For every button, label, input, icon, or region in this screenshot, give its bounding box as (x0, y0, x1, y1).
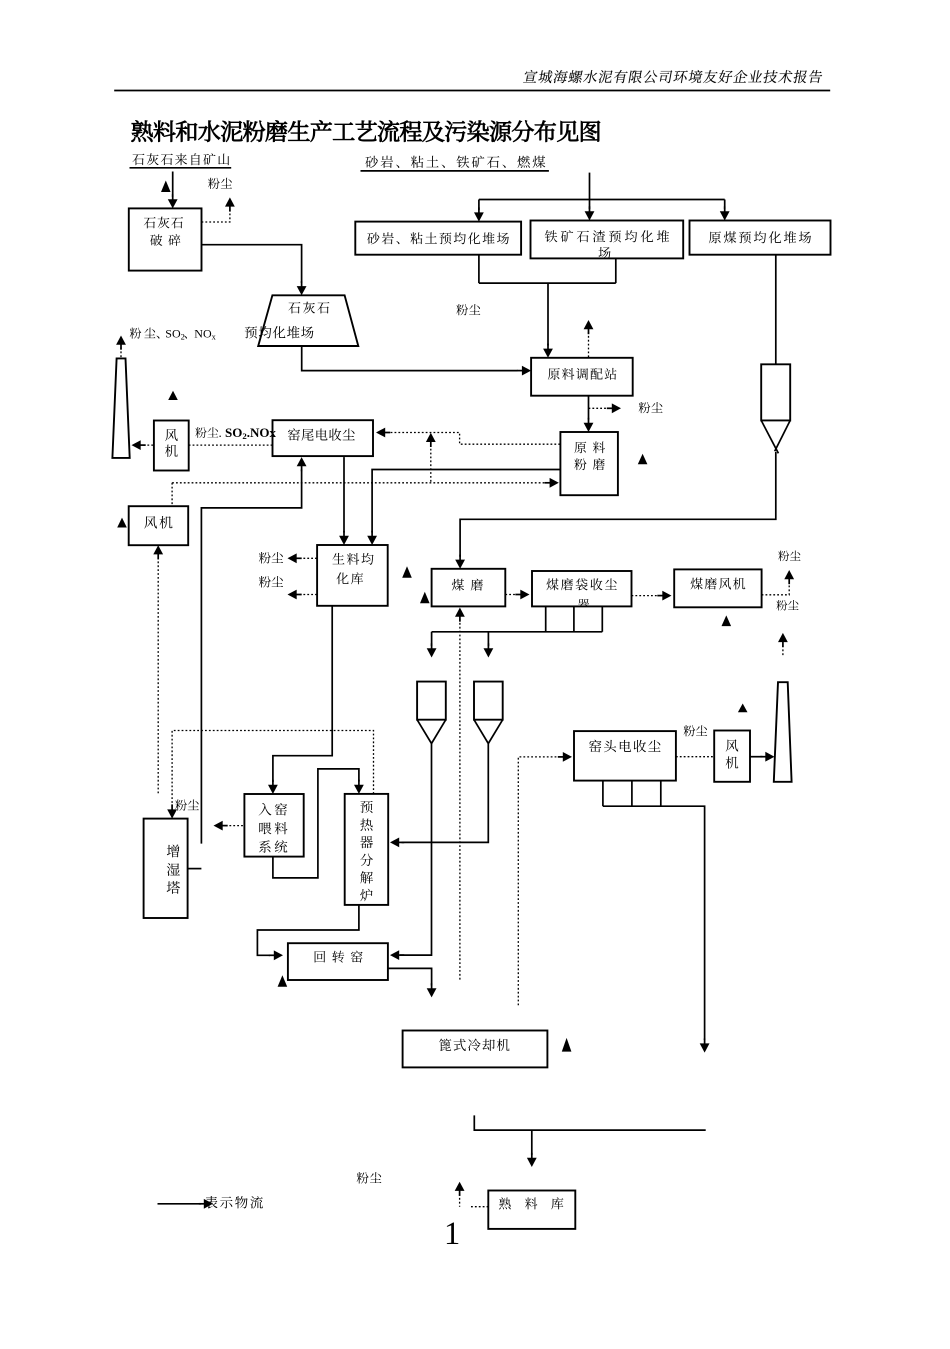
wire mixing to raw mill (588, 396, 590, 420)
pollution-source marker source fan2 (117, 518, 127, 528)
wire wire mine to crusher (172, 172, 174, 198)
label box text 场 clipped (599, 247, 611, 259)
arrowhead chimney1 dust head (116, 336, 126, 345)
label tower 塔 (167, 881, 180, 894)
arrowhead into bag filter (520, 590, 529, 600)
arrowhead into chimney2 (765, 752, 774, 762)
arrowhead into mixing station (522, 366, 531, 376)
arrowhead into chimney1 (132, 440, 141, 450)
wire dust riser (430, 445, 432, 483)
wire distribution bar (479, 199, 725, 201)
label feed 系统 (259, 840, 287, 853)
wire clinker dust v (459, 1194, 461, 1207)
pollution-source marker source kiln (278, 975, 288, 987)
wire hopper 1 funnel l (417, 720, 431, 744)
box 回转窑 (288, 943, 388, 980)
wire silo funnel left (761, 420, 778, 453)
pollution-source marker source crusher (161, 181, 171, 193)
box 风机 2 (129, 506, 189, 545)
wire coal fan dust (762, 583, 790, 595)
wire preheater to humidifier dust (172, 731, 373, 807)
box 石灰石破碎 (129, 208, 202, 270)
wire dotted long to raw mill (172, 482, 546, 484)
wire hopper1 to kiln (400, 744, 432, 956)
wire silo to feed system (273, 606, 332, 782)
arrowhead into humidifier (167, 809, 177, 818)
label feed 喂料 (259, 822, 287, 834)
wire drop2 (589, 200, 591, 210)
arrowhead into raw mill left (550, 478, 559, 488)
shape hopper 2 body (474, 682, 503, 720)
arrowhead into coal mill (455, 560, 465, 569)
wire crusher to limestone yard (202, 245, 302, 283)
label label 粉尘 chimney2 upper (776, 600, 798, 611)
label box text 熟料库 (499, 1197, 563, 1209)
shape hopper 1 body (417, 682, 446, 720)
wire bag legs v3 (601, 606, 603, 631)
arrowhead into fan2 bottom (153, 545, 163, 554)
wire hopper feed 2 (487, 632, 489, 646)
wire clinker drop (531, 1130, 533, 1155)
arrowhead coal fan dust head (784, 570, 794, 579)
wire clinker collect (474, 1115, 705, 1130)
wire silo dust 2 (300, 594, 318, 596)
shape trapezoid 石灰石预均化堆场 (258, 295, 358, 346)
label legend 表示物流 (205, 1196, 263, 1209)
label label 粉尘 humidifier (175, 799, 199, 810)
arrowhead into blend silo 1 (367, 536, 377, 545)
label box text 原煤预均化堆场 (709, 231, 811, 243)
arrowhead clinker drop head (700, 1043, 710, 1052)
wire drop1 (478, 200, 480, 211)
label label 粉尘 SO2NOx (195, 427, 218, 438)
wire raw mill to silo (372, 470, 560, 533)
arrowhead kiln out head (427, 988, 437, 997)
wire fan1 to chimney (144, 444, 154, 446)
label preheater 炉 (360, 889, 372, 901)
label label comma2 chimney1 (184, 336, 187, 339)
wire yard1 down (478, 255, 480, 283)
arrowhead into crusher (168, 199, 178, 208)
wire bag legs v2 (573, 606, 575, 631)
wire esp2 to fan3 (676, 756, 714, 758)
wire join to mixing (547, 283, 549, 345)
arrowhead into raw mill (584, 423, 594, 432)
label box text 窑尾电收尘 (288, 428, 355, 440)
arrowhead dust crusher up (225, 197, 235, 206)
box 砂岩、粘土预均化堆场 (355, 222, 521, 255)
label title 熟料和水泥粉磨生产工艺流程及污染源分布见图 (131, 120, 600, 142)
arrowhead into coal fan (662, 591, 671, 601)
wire underline 石灰石来自矿山 (130, 167, 232, 169)
wire esp2 legs bar and down (603, 806, 705, 1040)
wire kiln out (388, 968, 432, 985)
pollution-source marker source above fan3 (738, 704, 748, 713)
box 铁矿石渣预均化堆场 (531, 221, 684, 259)
label preheater 热 (360, 818, 372, 830)
label box text 风机 2 (144, 516, 172, 529)
wire esp down to silo (343, 457, 345, 532)
label label 石灰石来自矿山 (132, 153, 229, 165)
label text 预均化堆场 (245, 326, 314, 339)
label fan3 风 (726, 739, 739, 751)
wire feed from materials label (589, 173, 591, 200)
label label comma1 chimney1 (156, 336, 159, 339)
arrowhead hopper feed 2 head (484, 648, 494, 657)
wire humidifier riser (201, 470, 301, 844)
label preheater 器 (360, 836, 373, 848)
box 煤磨袋收尘器 (532, 571, 632, 606)
label label 粉尘 chimney1 (130, 328, 156, 339)
wire preheater to kiln (257, 905, 359, 955)
label box text 生料均 (332, 553, 373, 565)
arrowhead into iron yard (585, 211, 595, 220)
label preheater 预 (360, 801, 372, 813)
box 熟料库 (488, 1191, 575, 1229)
arrowhead into kilnhead esp (563, 752, 572, 762)
label text 石灰石 yard (288, 302, 329, 314)
wire silo stem (460, 452, 776, 557)
wire esp2 legs v2 (631, 781, 633, 807)
wire bag to coal fan (632, 595, 660, 597)
box 原煤预均化堆场 (690, 221, 831, 255)
label tower 增 (167, 845, 180, 858)
svg-text:. SO2.NOx: . SO2.NOx (219, 425, 277, 441)
label box text 煤磨 (452, 579, 483, 591)
wire silo dust 1 (300, 557, 318, 559)
wire bag legs v1 (545, 606, 547, 631)
arrowhead into feed system (268, 785, 278, 794)
arrowhead dust riser head (426, 433, 436, 442)
wire yard to mixing station (302, 346, 518, 371)
wire coal mill to bag (505, 594, 517, 596)
box 原料粉磨 (560, 432, 618, 495)
box 原料调配站 (531, 358, 633, 396)
arrowhead into preheater top (354, 785, 364, 794)
pollution-source marker source raw mill (638, 454, 648, 465)
wire clinker dust (471, 1206, 488, 1208)
arrowhead into sandstone yard (474, 212, 484, 221)
wire hopper 1 funnel r (432, 720, 446, 744)
box 煤磨风机 (674, 569, 761, 607)
wire header rule (114, 90, 830, 92)
pollution-source marker source cooler (562, 1038, 572, 1052)
pollution-source marker source coal mill 1 (402, 566, 412, 578)
label box text 回转窑 (315, 951, 363, 963)
arrowhead silo dust 1 head (288, 553, 297, 563)
wire dotted drop to fan2 (171, 483, 173, 506)
arrowhead into esp bottom (297, 457, 307, 466)
wire cooler dust riser (518, 757, 560, 1005)
wire dust mixing up (588, 332, 590, 358)
label box text 器 clipped (578, 599, 590, 610)
label box text 煤磨袋收尘 (546, 578, 616, 590)
arrowhead into limestone yard (297, 286, 307, 295)
arrowhead into clinker silo (527, 1158, 537, 1167)
wire dust arrow lone (782, 646, 784, 658)
label label 砂岩、粘土、铁矿石、燃煤 (365, 156, 545, 168)
label label 粉尘 mixing (639, 402, 663, 413)
arrowhead hopper feed 1 head (427, 648, 437, 657)
box 生料均化库 (317, 545, 388, 606)
arrowhead dust mixing up head (584, 320, 594, 329)
wire raw mill dust to esp (390, 433, 560, 445)
arrowhead into blend silo 2 (339, 536, 349, 545)
wire chimney1 dust (120, 348, 122, 359)
wire esp2 legs v1 (602, 781, 604, 807)
label label 粉尘 yards (456, 304, 480, 315)
arrowhead legend head (204, 1199, 213, 1209)
box 煤磨 (432, 569, 506, 607)
wire esp2 legs v3 (660, 781, 662, 807)
label box text 破碎 (150, 234, 180, 246)
label label 粉尘 silo2 (259, 576, 283, 588)
arrowhead into coal yard (720, 211, 730, 220)
wire underline 砂岩粘土铁矿石燃煤 (361, 170, 549, 172)
wire humidifier stub (188, 868, 202, 870)
wire drop3 (724, 200, 726, 210)
label box text 煤磨风机 (691, 578, 746, 590)
label fan1 机 (165, 445, 178, 457)
wire yard2 down (615, 258, 617, 283)
label label 粉尘 coalfan (778, 551, 800, 562)
wire bag legs bar (432, 631, 603, 633)
label box text 原料 (574, 442, 605, 454)
pollution-source marker source coal mill 2 (420, 592, 430, 604)
arrowhead dust mixing right head (612, 403, 621, 413)
arrowhead feed dust head (214, 821, 223, 831)
box 窑尾电收尘 (273, 420, 374, 456)
wire coal yard down (775, 255, 777, 365)
label tower 湿 (167, 863, 180, 876)
label label 粉尘 kilnhead (684, 725, 708, 736)
label box text 粉磨 (574, 458, 604, 470)
label feed 入窑 (259, 803, 287, 816)
arrowhead clinker dust head (455, 1182, 465, 1191)
label label 粉尘 crusher (208, 178, 232, 189)
label box text 铁矿石渣预均化堆 (545, 230, 669, 242)
wire hopper2 to preheater (402, 744, 489, 843)
wire esp to fan1 (189, 444, 273, 446)
shape chimney 2 (774, 682, 792, 782)
wire legend line (158, 1203, 202, 1205)
wire coal return dashed (459, 619, 461, 982)
box 风机 3 (714, 731, 750, 782)
label box text 石灰石 (144, 217, 183, 229)
pollution-source marker source below coal fan (722, 615, 732, 626)
arrowhead into mixing top (543, 349, 553, 358)
arrowhead into kiln left (274, 950, 283, 960)
label preheater 分 (360, 854, 373, 866)
box 窑头电收尘 (574, 731, 676, 781)
arrowhead into esp right (376, 428, 385, 438)
shape coal silo body (761, 364, 790, 420)
wire feed loop to preheater (273, 769, 359, 878)
pollution-source marker source near fan1 (168, 391, 178, 400)
box 预热器分解炉 (345, 794, 389, 905)
wire hopper feed 1 (431, 632, 433, 646)
label box text 化库 (336, 572, 363, 584)
arrowhead dust arrow lone head (778, 633, 788, 642)
label fan1 风 (165, 429, 178, 441)
label preheater 解 (360, 871, 373, 883)
box 篦式冷却机 (403, 1031, 548, 1068)
label box text 砂岩粘土预均化堆场 (367, 232, 509, 244)
arrowhead silo dust 2 head (288, 590, 297, 600)
label header 宣城海螺水泥有限公司环境友好企业技术报告 (523, 70, 823, 83)
label label 粉尘 silo1 (259, 552, 283, 564)
wire join bar (479, 282, 616, 284)
svg-text:1: 1 (444, 1216, 460, 1252)
label box text 篦式冷却机 (439, 1039, 510, 1052)
wire hopper 2 funnel r (488, 720, 502, 744)
wire hopper 2 funnel l (474, 720, 488, 744)
box 增湿塔 (144, 819, 188, 918)
wire feed dust left (226, 825, 245, 827)
label fan3 机 (726, 756, 739, 768)
wire dust from crusher (202, 210, 230, 223)
box 入窑喂料系统 (244, 794, 303, 857)
wire silo funnel right (775, 420, 791, 451)
wire fan2 dust from below (157, 558, 159, 794)
arrowhead coal return head (455, 608, 465, 617)
wire dust mixing right (589, 407, 610, 409)
arrowhead into preheater right (390, 838, 399, 848)
label box text 原料调配站 (548, 368, 617, 380)
box 风机 1 (154, 421, 189, 471)
arrowhead into kiln right (390, 950, 399, 960)
wire fan3 to chimney2 (750, 756, 763, 758)
label label 粉尘 clinker (357, 1172, 382, 1184)
shape chimney 1 (112, 358, 129, 458)
label box text 窑头电收尘 (589, 740, 660, 753)
